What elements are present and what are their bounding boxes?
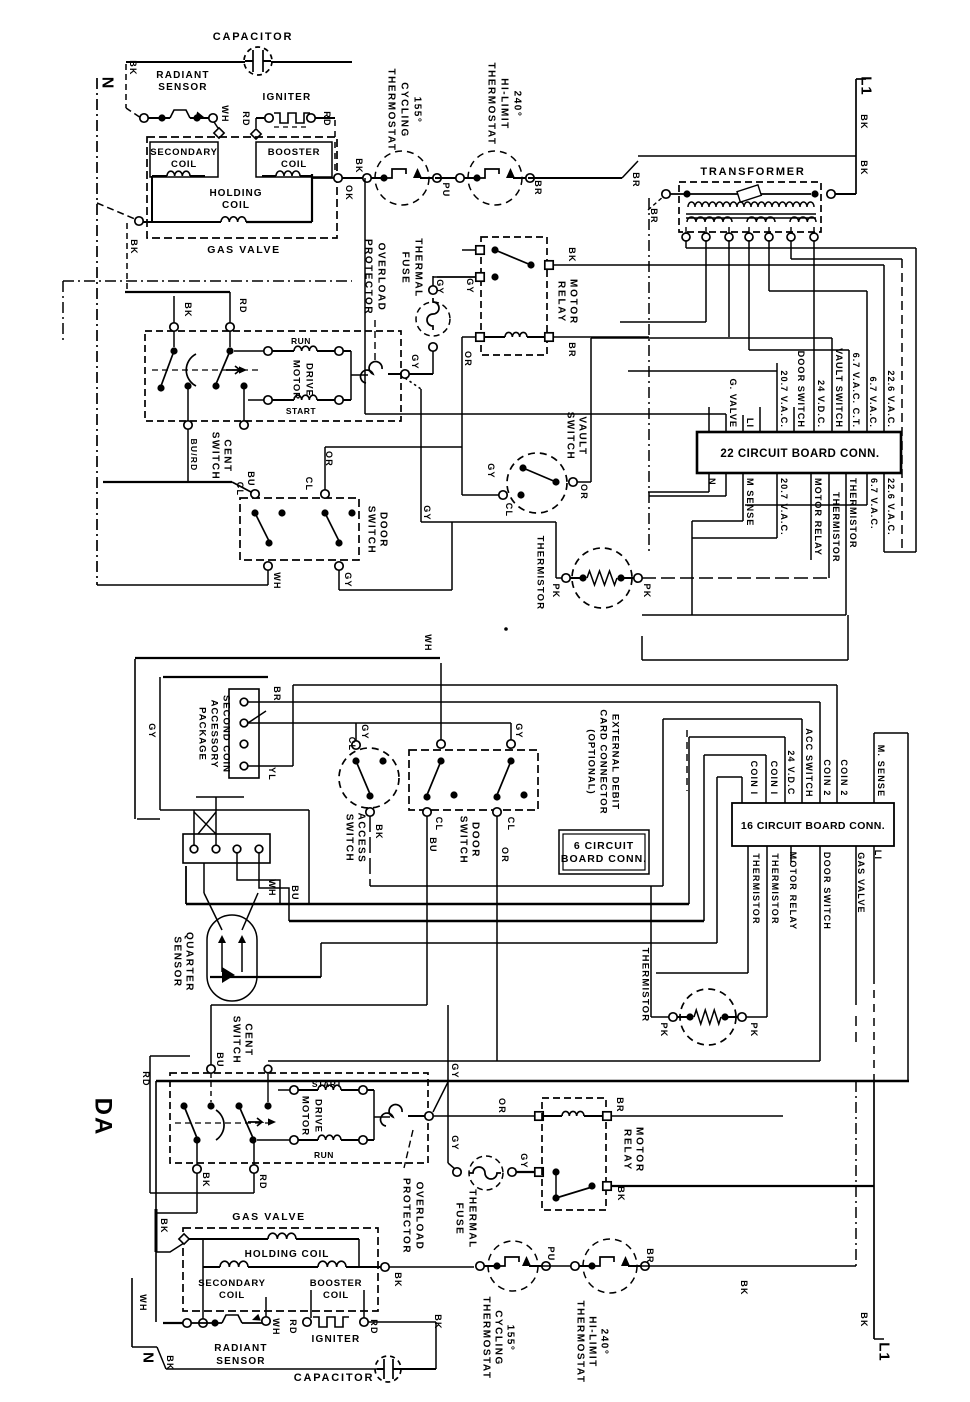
svg-text:GY: GY xyxy=(147,723,157,738)
svg-text:VAULT: VAULT xyxy=(577,416,588,455)
svg-text:THERMISTOR: THERMISTOR xyxy=(848,478,858,549)
svg-text:BU: BU xyxy=(215,1052,225,1067)
svg-text:RUN: RUN xyxy=(314,1150,334,1160)
svg-text:SENSOR: SENSOR xyxy=(158,82,207,93)
svg-text:DOOR SWITCH: DOOR SWITCH xyxy=(796,351,806,428)
svg-text:N: N xyxy=(140,1352,157,1364)
svg-text:RD: RD xyxy=(141,1071,151,1086)
svg-text:CAPACITOR: CAPACITOR xyxy=(294,1372,375,1384)
svg-text:PU: PU xyxy=(546,1247,556,1262)
svg-text:BK: BK xyxy=(859,1312,869,1327)
svg-text:RD: RD xyxy=(369,1319,379,1334)
svg-text:LI: LI xyxy=(873,850,883,860)
svg-text:BR: BR xyxy=(649,208,659,223)
svg-text:THERMAL: THERMAL xyxy=(467,1189,478,1248)
svg-text:VAULT SWITCH: VAULT SWITCH xyxy=(834,348,844,428)
svg-text:DOOR: DOOR xyxy=(470,822,481,858)
svg-text:(OPTIONAL): (OPTIONAL) xyxy=(586,729,597,794)
svg-text:DA: DA xyxy=(90,1098,117,1137)
svg-text:PK: PK xyxy=(642,584,652,599)
svg-text:FUSE: FUSE xyxy=(400,252,411,285)
svg-text:THERMISTOR: THERMISTOR xyxy=(770,853,780,924)
svg-text:FUSE: FUSE xyxy=(454,1203,465,1236)
svg-text:GAS VALVE: GAS VALVE xyxy=(232,1211,306,1223)
svg-text:THERMOSTAT: THERMOSTAT xyxy=(575,1301,586,1384)
svg-text:GY: GY xyxy=(410,354,420,369)
svg-text:SECONDARY: SECONDARY xyxy=(150,147,218,158)
svg-text:IGNITER: IGNITER xyxy=(312,1334,361,1345)
svg-text:BK: BK xyxy=(567,247,577,262)
svg-text:MOTOR: MOTOR xyxy=(568,279,579,325)
svg-text:OK: OK xyxy=(344,185,354,201)
svg-text:BR: BR xyxy=(631,172,641,187)
svg-text:CENT: CENT xyxy=(243,1023,254,1056)
svg-text:THERMISTOR: THERMISTOR xyxy=(535,536,546,611)
svg-text:RUN: RUN xyxy=(291,336,311,346)
svg-text:WH: WH xyxy=(267,879,277,896)
svg-text:CENT: CENT xyxy=(222,439,233,472)
svg-text:22.6 V.A.C.: 22.6 V.A.C. xyxy=(886,370,896,428)
svg-text:COIL: COIL xyxy=(171,159,197,170)
svg-text:OVERLOAD: OVERLOAD xyxy=(414,1182,425,1251)
svg-text:WH: WH xyxy=(271,1318,281,1335)
svg-text:RD: RD xyxy=(241,111,251,126)
svg-text:OVERLOAD: OVERLOAD xyxy=(376,243,387,312)
svg-text:RELAY: RELAY xyxy=(622,1129,633,1171)
svg-text:RADIANT: RADIANT xyxy=(214,1343,267,1354)
svg-text:M. SENSE: M. SENSE xyxy=(876,745,886,798)
svg-text:IGNITER: IGNITER xyxy=(263,92,312,103)
svg-text:BR: BR xyxy=(645,1248,655,1263)
svg-text:RADIANT: RADIANT xyxy=(156,70,209,81)
svg-text:GAS VALVE: GAS VALVE xyxy=(207,244,281,256)
svg-text:CL: CL xyxy=(347,737,357,751)
svg-text:SWITCH: SWITCH xyxy=(458,816,469,864)
svg-text:YL: YL xyxy=(267,767,277,781)
svg-text:MOTOR: MOTOR xyxy=(634,1127,645,1173)
svg-text:G. VALVE: G. VALVE xyxy=(728,378,738,428)
svg-text:THERMISTOR: THERMISTOR xyxy=(751,853,761,924)
svg-text:CARD CONNECTOR: CARD CONNECTOR xyxy=(598,709,609,814)
svg-text:WH: WH xyxy=(272,572,282,589)
svg-text:HOLDING: HOLDING xyxy=(209,188,262,199)
svg-text:THERMISTOR: THERMISTOR xyxy=(831,492,841,563)
svg-text:GY: GY xyxy=(360,724,370,739)
svg-text:OR: OR xyxy=(463,351,473,367)
svg-text:GY: GY xyxy=(435,279,445,294)
svg-text:PU: PU xyxy=(441,183,451,198)
svg-text:RD: RD xyxy=(258,1174,268,1189)
svg-text:SWITCH: SWITCH xyxy=(344,814,355,862)
svg-text:GY: GY xyxy=(343,572,353,587)
svg-text:RD: RD xyxy=(238,298,248,313)
svg-text:COIN I: COIN I xyxy=(749,761,759,796)
svg-text:L1: L1 xyxy=(858,76,875,96)
svg-text:GY: GY xyxy=(422,505,432,520)
svg-text:16 CIRCUIT BOARD CONN.: 16 CIRCUIT BOARD CONN. xyxy=(741,820,885,832)
svg-text:GAS VALVE: GAS VALVE xyxy=(856,852,866,913)
svg-text:CL: CL xyxy=(506,817,516,831)
svg-text:EXTERNAL DEBIT: EXTERNAL DEBIT xyxy=(610,714,621,810)
svg-text:MOTOR: MOTOR xyxy=(300,1096,311,1136)
svg-text:N: N xyxy=(707,478,717,486)
svg-text:COIN 2: COIN 2 xyxy=(822,759,832,796)
svg-text:DRIVE: DRIVE xyxy=(313,1099,324,1133)
svg-text:6.7 V.A.C. C.T.: 6.7 V.A.C. C.T. xyxy=(851,353,861,428)
svg-text:ACCESSORY: ACCESSORY xyxy=(209,700,220,769)
svg-text:SWITCH: SWITCH xyxy=(366,506,377,554)
svg-text:CL: CL xyxy=(304,477,314,491)
svg-text:20.7 V.A.C.: 20.7 V.A.C. xyxy=(779,478,789,536)
svg-text:OR: OR xyxy=(579,484,589,500)
svg-text:BK: BK xyxy=(129,239,139,254)
svg-text:HOLDING COIL: HOLDING COIL xyxy=(245,1249,330,1260)
svg-text:BK: BK xyxy=(433,1314,443,1329)
svg-text:22.6 V.A.C.: 22.6 V.A.C. xyxy=(886,478,896,536)
svg-text:PK: PK xyxy=(749,1023,759,1038)
svg-text:BK: BK xyxy=(159,1218,169,1233)
svg-text:BK: BK xyxy=(859,160,869,175)
svg-text:BR: BR xyxy=(533,180,543,195)
svg-text:MOTOR: MOTOR xyxy=(291,360,302,400)
svg-text:SECOND COIN: SECOND COIN xyxy=(221,695,232,773)
svg-text:SECONDARY: SECONDARY xyxy=(198,1278,266,1289)
svg-text:DRIVE: DRIVE xyxy=(304,363,315,397)
svg-text:THERMISTOR: THERMISTOR xyxy=(640,948,651,1023)
svg-text:OR: OR xyxy=(497,1098,507,1114)
svg-text:HI-LIMIT: HI-LIMIT xyxy=(587,1316,598,1367)
svg-text:PK: PK xyxy=(551,584,561,599)
svg-text:BK: BK xyxy=(616,1186,626,1201)
svg-text:PROTECTOR: PROTECTOR xyxy=(401,1178,412,1254)
svg-text:M SENSE: M SENSE xyxy=(745,478,755,526)
svg-text:CYCLING: CYCLING xyxy=(493,1310,504,1366)
svg-text:CAPACITOR: CAPACITOR xyxy=(213,31,294,43)
svg-text:ACC SWITCH: ACC SWITCH xyxy=(804,728,814,798)
svg-text:HI-LIMIT: HI-LIMIT xyxy=(499,78,510,129)
svg-text:SWITCH: SWITCH xyxy=(231,1016,242,1064)
svg-text:6.7 V.A.C.: 6.7 V.A.C. xyxy=(868,376,878,428)
svg-text:WH: WH xyxy=(423,634,433,651)
svg-text:CL: CL xyxy=(504,503,514,517)
svg-text:LI: LI xyxy=(745,418,755,428)
svg-text:COIN 2: COIN 2 xyxy=(839,759,849,796)
svg-text:BK: BK xyxy=(393,1272,403,1287)
svg-text:TRANSFORMER: TRANSFORMER xyxy=(700,166,805,178)
svg-text:SWITCH: SWITCH xyxy=(210,432,221,480)
svg-text:N: N xyxy=(99,77,116,90)
svg-text:SENSOR: SENSOR xyxy=(216,1356,265,1367)
svg-text:THERMOSTAT: THERMOSTAT xyxy=(486,63,497,146)
svg-text:BU/RD: BU/RD xyxy=(189,439,199,472)
svg-text:THERMAL: THERMAL xyxy=(413,238,424,297)
svg-text:240°: 240° xyxy=(599,1329,610,1356)
svg-text:PACKAGE: PACKAGE xyxy=(197,707,208,761)
svg-text:COIL: COIL xyxy=(222,200,250,211)
svg-text:MOTOR RELAY: MOTOR RELAY xyxy=(788,852,798,931)
svg-text:ACCESS: ACCESS xyxy=(356,813,367,864)
svg-text:BR: BR xyxy=(567,342,577,357)
svg-text:THERMOSTAT: THERMOSTAT xyxy=(481,1297,492,1380)
svg-text:BK: BK xyxy=(739,1280,749,1295)
svg-text:GY: GY xyxy=(514,723,524,738)
svg-text:PROTECTOR: PROTECTOR xyxy=(363,239,374,315)
svg-text:22 CIRCUIT BOARD CONN.: 22 CIRCUIT BOARD CONN. xyxy=(720,448,879,460)
svg-text:BU: BU xyxy=(246,471,256,486)
svg-text:WH: WH xyxy=(138,1294,148,1311)
svg-text:WH: WH xyxy=(220,105,230,122)
svg-text:SENSOR: SENSOR xyxy=(172,936,183,987)
svg-text:BU: BU xyxy=(428,837,438,852)
svg-text:SWITCH: SWITCH xyxy=(565,412,576,460)
svg-text:BOOSTER: BOOSTER xyxy=(310,1278,363,1289)
svg-text:L1: L1 xyxy=(876,1342,893,1362)
svg-text:24 V.D.C.: 24 V.D.C. xyxy=(816,380,826,428)
svg-text:BR: BR xyxy=(272,686,282,701)
svg-text:THERMOSTAT: THERMOSTAT xyxy=(386,69,397,152)
svg-text:GY: GY xyxy=(486,463,496,478)
svg-text:BOOSTER: BOOSTER xyxy=(268,147,321,158)
svg-text:6 CIRCUIT: 6 CIRCUIT xyxy=(574,840,634,852)
svg-text:DOOR SWITCH: DOOR SWITCH xyxy=(822,852,832,930)
svg-text:COIL: COIL xyxy=(281,159,307,170)
svg-text:RD: RD xyxy=(288,1319,298,1334)
svg-text:GY: GY xyxy=(465,278,475,293)
svg-text:COIL: COIL xyxy=(219,1290,245,1301)
svg-text:BU: BU xyxy=(290,885,300,900)
svg-text:DOOR: DOOR xyxy=(378,512,389,548)
svg-text:START: START xyxy=(286,406,317,416)
svg-text:240°: 240° xyxy=(512,91,523,118)
svg-text:BK: BK xyxy=(201,1172,211,1187)
svg-text:RD: RD xyxy=(322,111,332,126)
svg-text:GY: GY xyxy=(450,1063,460,1078)
svg-text:6.7 V.A.C.: 6.7 V.A.C. xyxy=(869,478,879,530)
svg-text:BK: BK xyxy=(183,302,193,317)
svg-text:RELAY: RELAY xyxy=(556,281,567,323)
svg-text:BK: BK xyxy=(374,824,384,839)
svg-text:CYCLING: CYCLING xyxy=(399,82,410,138)
svg-text:COIL: COIL xyxy=(323,1290,349,1301)
svg-text:20.7 V.A.C.: 20.7 V.A.C. xyxy=(779,370,789,428)
svg-text:OR: OR xyxy=(500,847,510,863)
svg-text:CL: CL xyxy=(235,482,245,496)
svg-text:GY: GY xyxy=(519,1153,529,1168)
svg-text:CL: CL xyxy=(434,817,444,831)
svg-text:PK: PK xyxy=(659,1023,669,1038)
svg-text:BK: BK xyxy=(859,114,869,129)
svg-text:155°: 155° xyxy=(505,1325,516,1352)
svg-text:BOARD CONN.: BOARD CONN. xyxy=(561,853,647,865)
svg-text:155°: 155° xyxy=(412,97,423,124)
svg-text:BK: BK xyxy=(354,158,364,173)
svg-text:BR: BR xyxy=(615,1097,625,1112)
svg-text:24 V.D.C: 24 V.D.C xyxy=(786,750,796,795)
svg-text:MOTOR RELAY: MOTOR RELAY xyxy=(813,478,823,556)
svg-text:GY: GY xyxy=(450,1135,460,1150)
svg-text:QUARTER: QUARTER xyxy=(184,932,195,992)
svg-text:COIN I: COIN I xyxy=(769,761,779,796)
